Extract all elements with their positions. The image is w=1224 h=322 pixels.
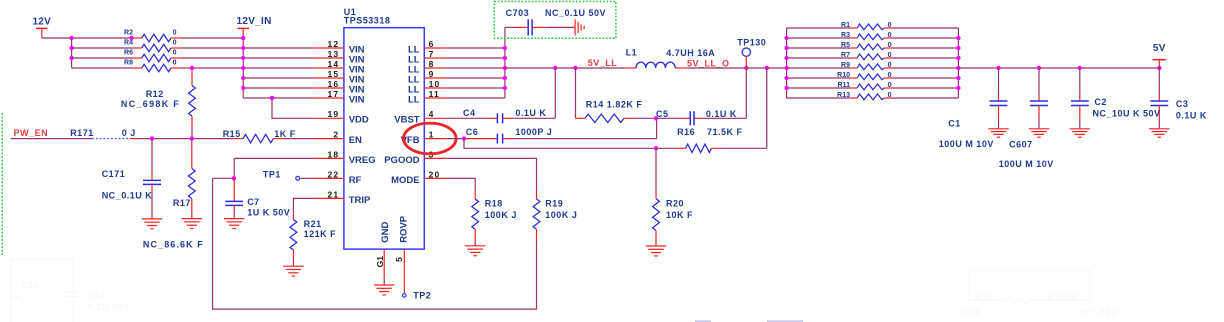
- pin 2 EN: [314, 130, 362, 147]
- svg-text:5V_LL_O: 5V_LL_O: [687, 59, 730, 69]
- ground at R18: [465, 245, 485, 247]
- junction LL bus y78: [503, 76, 507, 80]
- svg-text:2: 2: [333, 130, 339, 140]
- svg-text:PGOOD: PGOOD: [384, 155, 420, 166]
- resistor R5 0 ohm: [787, 42, 959, 50]
- wire LL row y58: [447, 57, 505, 59]
- capacitor C607: [1030, 68, 1048, 128]
- wire MODE net: [447, 178, 475, 189]
- svg-text:10K F: 10K F: [666, 210, 693, 220]
- wire R14 riser: [575, 68, 577, 118]
- pin 20 MODE: [391, 169, 447, 186]
- svg-text:0: 0: [888, 22, 892, 29]
- green dashed box around C703: [494, 2, 616, 39]
- faint ghost circuit bottom-left: [10, 259, 79, 322]
- svg-text:C607: C607: [1009, 140, 1033, 150]
- resistor R8 0 ohm: [124, 60, 181, 72]
- svg-text:NC_0.1U K: NC_0.1U K: [102, 191, 153, 201]
- resistor R7 0 ohm: [787, 52, 959, 60]
- svg-text:R4: R4: [124, 40, 133, 47]
- pin 14 VIN: [314, 59, 365, 76]
- svg-text:0 OHM: 0 OHM: [1048, 292, 1079, 302]
- svg-text:R15: R15: [223, 129, 241, 139]
- svg-text:6: 6: [429, 39, 435, 49]
- capacitor C7 1U K 50V: [225, 178, 290, 218]
- svg-text:GND: GND: [380, 222, 391, 243]
- svg-text:R17: R17: [173, 198, 191, 208]
- wire R171 to EN row: [130, 138, 136, 140]
- capacitor C5 0.1U K: [656, 68, 746, 125]
- faint cut text remnant right: [767, 320, 803, 322]
- svg-text:R14 1.82K F: R14 1.82K F: [586, 99, 643, 109]
- resistor R19 100K J: [533, 190, 577, 241]
- svg-text:14: 14: [327, 59, 339, 69]
- resistor R21 121K F: [290, 216, 336, 266]
- svg-text:R11: R11: [838, 82, 851, 89]
- svg-text:VREG: VREG: [349, 155, 376, 166]
- testpoint TP1: [263, 169, 300, 180]
- junction bank left bus y38: [784, 36, 788, 40]
- resistor R4 0 ohm: [124, 40, 181, 52]
- pin 11 LL: [408, 89, 447, 106]
- junction R16 riser: [765, 66, 769, 70]
- ground at R21: [283, 265, 303, 267]
- svg-text:C7: C7: [247, 197, 260, 207]
- svg-text:MODE: MODE: [391, 175, 420, 186]
- testpoint TP130: [737, 37, 766, 68]
- svg-text:NC_0.1U 50V: NC_0.1U 50V: [545, 8, 606, 18]
- pin 1 VFB: [401, 130, 447, 147]
- junction left bus row R4: [69, 46, 73, 50]
- pin 17 VIN: [314, 89, 365, 106]
- pin 18 VREG: [314, 149, 376, 166]
- resistor R12 NC_698K F: [121, 68, 195, 139]
- wire row R8 left: [72, 67, 134, 69]
- resistor R9 0 ohm: [787, 62, 959, 70]
- resistor R10 0 ohm: [787, 72, 959, 80]
- junction 12V_IN bus r8: [241, 66, 245, 70]
- svg-text:R3: R3: [841, 32, 850, 39]
- junction C1 tap: [996, 66, 1000, 70]
- pin 19 VDD: [314, 109, 369, 126]
- capacitor C4 0.1U K: [447, 108, 556, 124]
- svg-text:0: 0: [173, 50, 177, 57]
- wire 5V_LL_O row: [687, 67, 786, 69]
- junction 12V_IN bus r6: [241, 56, 245, 60]
- svg-text:5V: 5V: [1153, 43, 1166, 54]
- svg-text:EN: EN: [349, 135, 362, 146]
- pin 16 VIN: [314, 79, 365, 96]
- ground at C7: [224, 218, 244, 220]
- svg-text:C1: C1: [948, 119, 961, 129]
- svg-text:C14: C14: [88, 291, 106, 301]
- svg-text:0: 0: [888, 62, 892, 69]
- wire row R2 right: [182, 37, 244, 39]
- svg-text:1U K 50V: 1U K 50V: [247, 208, 290, 218]
- svg-text:17: 17: [327, 89, 339, 99]
- svg-text:16: 16: [327, 79, 339, 89]
- junction LL bus y88: [503, 86, 507, 90]
- pin 8 LL: [408, 59, 447, 76]
- svg-text:12: 12: [327, 39, 339, 49]
- svg-text:0: 0: [173, 30, 177, 37]
- svg-text:NC_698K F: NC_698K F: [121, 99, 180, 109]
- junction R12 top: [190, 66, 194, 70]
- pin 4 VBST: [394, 109, 447, 126]
- junction 12V_IN bus r4: [241, 46, 245, 50]
- capacitor C171 NC_0.1U K: [102, 139, 161, 219]
- svg-text:R22: R22: [975, 292, 993, 302]
- svg-text:R8: R8: [124, 60, 133, 67]
- svg-text:1: 1: [429, 130, 435, 140]
- junction bank right bus y78: [956, 76, 960, 80]
- svg-text:C703: C703: [506, 8, 530, 18]
- svg-text:C3: C3: [1176, 99, 1189, 109]
- svg-text:5: 5: [394, 257, 404, 262]
- svg-text:11: 11: [429, 89, 440, 99]
- svg-text:100U M 10V: 100U M 10V: [939, 139, 994, 149]
- wire row R4 left: [72, 47, 134, 49]
- svg-text:C19: C19: [21, 280, 39, 290]
- junction R14/C5/C6 node: [654, 116, 658, 120]
- svg-text:TP1: TP1: [263, 169, 281, 179]
- svg-text:R2: R2: [124, 30, 133, 37]
- svg-text:RF: RF: [349, 175, 362, 186]
- svg-text:NC_10U K 50V: NC_10U K 50V: [1093, 109, 1161, 119]
- junction at 12V bus x71: [69, 36, 73, 40]
- junction on R2 row near label: [129, 36, 133, 40]
- svg-text:LL: LL: [408, 94, 420, 105]
- svg-text:0.1U K: 0.1U K: [706, 109, 737, 119]
- wire 12V_IN bus: [242, 38, 244, 98]
- resistor R1 0 ohm: [787, 22, 959, 30]
- svg-text:VDD: VDD: [349, 115, 369, 126]
- wire VREG net: [234, 157, 314, 159]
- svg-text:10: 10: [429, 79, 441, 89]
- svg-text:TRIP: TRIP: [349, 195, 371, 206]
- junction C3 tap: [1157, 66, 1161, 70]
- power symbol 12V: [36, 27, 48, 29]
- svg-text:0 J: 0 J: [122, 128, 136, 138]
- svg-text:100U M 10V: 100U M 10V: [999, 159, 1054, 169]
- wire 5V_LL row: [505, 67, 626, 69]
- svg-text:TPS53318: TPS53318: [344, 16, 391, 26]
- testpoint TP2: [403, 290, 432, 300]
- svg-text:0: 0: [888, 52, 892, 59]
- svg-text:0: 0: [888, 92, 892, 99]
- pin 13 VIN: [314, 49, 365, 66]
- resistor R15 1K F: [223, 129, 314, 143]
- svg-text:0.1U K: 0.1U K: [515, 108, 546, 118]
- wire output bank left bus: [786, 28, 788, 98]
- wire LL row y98: [447, 97, 505, 99]
- junction R14 riser: [573, 66, 577, 70]
- svg-text:VIN: VIN: [349, 94, 365, 105]
- svg-text:R6: R6: [124, 50, 133, 57]
- svg-text:0.1U K: 0.1U K: [1176, 110, 1207, 120]
- junction VREG/C7: [232, 176, 236, 180]
- svg-text:1000P J: 1000P J: [515, 127, 552, 137]
- svg-text:R5: R5: [841, 42, 850, 49]
- svg-text:71.5K F: 71.5K F: [707, 127, 743, 137]
- wire PGOOD net: [447, 158, 537, 190]
- svg-text:0: 0: [888, 82, 892, 89]
- wire to pin 17: [243, 97, 314, 99]
- junction VDD tap: [270, 96, 274, 100]
- capacitor C6 1000P J: [447, 118, 657, 143]
- ground at C3: [1149, 128, 1169, 130]
- svg-text:20: 20: [429, 169, 441, 179]
- svg-text:19: 19: [327, 109, 339, 119]
- wire LL bus: [504, 27, 506, 98]
- wire LL row y78: [447, 77, 505, 79]
- svg-text:ROVP: ROVP: [399, 215, 410, 243]
- resistor R3 0 ohm: [787, 32, 959, 40]
- resistor R17 NC_86.6K F: [143, 139, 204, 250]
- wire output bank right bus: [957, 28, 959, 98]
- resistor R13 0 ohm: [787, 92, 959, 100]
- junction bank right bus y58: [956, 56, 960, 60]
- wire PW_EN: [11, 138, 92, 140]
- wire VREG bottom loop to R19: [213, 178, 537, 309]
- svg-text:C2: C2: [1094, 97, 1107, 107]
- junction left bus row R6: [69, 56, 73, 60]
- wire 5V output row: [958, 67, 1159, 69]
- svg-text:12V_IN: 12V_IN: [237, 16, 272, 27]
- junction bank left bus y48: [784, 46, 788, 50]
- svg-text:C4: C4: [463, 108, 476, 118]
- pin 10 LL: [408, 79, 447, 96]
- pin 7 LL: [408, 49, 447, 66]
- svg-text:5V_LL: 5V_LL: [588, 58, 618, 68]
- resistor R18 100K J: [472, 190, 517, 246]
- junction TP130: [744, 66, 748, 70]
- junction C607 tap: [1037, 66, 1041, 70]
- wire row R6 to pin 13: [182, 57, 314, 59]
- svg-text:R10: R10: [837, 72, 850, 79]
- junction bank left bus y68: [784, 66, 788, 70]
- resistor R20 10K F: [653, 148, 693, 246]
- svg-text:PW_EN: PW_EN: [14, 128, 49, 138]
- svg-text:7: 7: [429, 49, 435, 59]
- resistor R6 0 ohm: [124, 50, 181, 62]
- svg-text:0: 0: [888, 42, 892, 49]
- svg-text:1K F: 1K F: [274, 129, 296, 139]
- wire TRIP net: [293, 198, 313, 216]
- wire LL row y68: [447, 67, 505, 69]
- svg-text:4: 4: [429, 109, 435, 119]
- svg-text:C171: C171: [102, 169, 126, 179]
- ground at GND pin: [374, 284, 394, 286]
- ground at C2: [1070, 128, 1090, 130]
- pin 3 PGOOD: [384, 149, 447, 166]
- svg-text:G1: G1: [375, 256, 385, 268]
- svg-text:0.1U 50V: 0.1U 50V: [88, 302, 130, 312]
- pin 9 LL: [408, 69, 447, 86]
- wire row R8 to pin 14: [182, 67, 314, 69]
- junction C2 tap: [1078, 66, 1082, 70]
- svg-text:NC_86.6K F: NC_86.6K F: [143, 240, 204, 250]
- op-amp U1 TPS53318 body: [344, 7, 425, 249]
- wire LL row y48: [447, 47, 505, 49]
- svg-text:R7: R7: [841, 52, 850, 59]
- junction C171 tap: [150, 136, 154, 140]
- wire left bus x71 down: [71, 38, 73, 68]
- power symbol 12V_IN: [237, 27, 249, 29]
- junction 12V_IN bus r15: [241, 76, 245, 80]
- junction C4 riser: [553, 66, 557, 70]
- junction 12V_IN bus r2: [241, 36, 245, 40]
- svg-text:0: 0: [888, 32, 892, 39]
- green dashed page-boundary edge (left): [1, 113, 3, 255]
- svg-text:NC_PAD: NC_PAD: [1080, 308, 1119, 318]
- svg-text:15: 15: [327, 69, 339, 79]
- wire 12V to R2 row: [42, 37, 134, 39]
- svg-text:4.7UH 16A: 4.7UH 16A: [666, 48, 715, 58]
- junction bank left bus y78: [784, 76, 788, 80]
- wire to pin 16: [243, 87, 314, 89]
- pin 6 LL: [408, 39, 447, 56]
- svg-text:R20: R20: [666, 198, 684, 208]
- faint cut text remnant left: [695, 320, 711, 322]
- resistor R171 0 J (NC, dashed): [70, 128, 136, 139]
- svg-text:0: 0: [888, 72, 892, 79]
- junction R17 tap: [190, 136, 194, 140]
- junction R16/R20 node: [654, 146, 658, 150]
- junction bank right bus y48: [956, 46, 960, 50]
- svg-text:R16: R16: [677, 127, 695, 137]
- svg-text:0: 0: [173, 60, 177, 67]
- red ellipse highlight around VFB: [404, 123, 457, 154]
- svg-text:18: 18: [327, 149, 339, 159]
- svg-text:R1: R1: [841, 22, 850, 29]
- power symbol 5V: [1153, 59, 1166, 61]
- wire to pin 15: [243, 77, 314, 79]
- capacitor C2: [1071, 68, 1089, 128]
- svg-text:12V: 12V: [32, 17, 51, 28]
- pin 21 TRIP: [314, 189, 371, 206]
- wire C4 riser to 5V_LL: [554, 68, 556, 118]
- svg-text:R13: R13: [837, 92, 850, 99]
- inductor L1 4.7UH 16A: [626, 48, 716, 68]
- faint ghost circuit bottom-right: [969, 271, 1090, 304]
- svg-text:121K F: 121K F: [304, 229, 337, 239]
- pin G1 GND: [375, 222, 391, 285]
- svg-text:L1: L1: [626, 48, 638, 58]
- capacitor C3: [1150, 68, 1168, 128]
- junction VFB feedback tap: [462, 136, 466, 140]
- svg-text:C6: C6: [466, 127, 479, 137]
- resistor R14 1.82K F: [576, 99, 683, 122]
- svg-text:R12: R12: [146, 89, 164, 99]
- resistor R16 71.5K F: [656, 68, 767, 153]
- capacitor C703 NC_0.1U 50V: [505, 8, 606, 35]
- wire LL row y88: [447, 87, 505, 89]
- svg-text:R9: R9: [841, 62, 850, 69]
- svg-text:100K J: 100K J: [485, 210, 517, 220]
- pin 22 RF: [314, 169, 362, 186]
- junction bank right bus y38: [956, 36, 960, 40]
- ground at R17: [182, 218, 202, 220]
- svg-text:13: 13: [327, 49, 339, 59]
- junction LL bus y68: [503, 66, 507, 70]
- svg-text:9: 9: [429, 69, 435, 79]
- junction bank left bus y88: [784, 86, 788, 90]
- pin 12 VIN: [314, 39, 365, 56]
- junction 12V_IN bus r16: [241, 86, 245, 90]
- resistor R11 0 ohm: [787, 82, 959, 90]
- junction LL bus y58: [503, 56, 507, 60]
- ground at C607: [1029, 128, 1049, 130]
- wire VFB feedback row: [464, 139, 656, 149]
- junction bank right bus y68: [956, 66, 960, 70]
- ground (sideways) at C703: [574, 19, 576, 35]
- pin 15 VIN: [314, 69, 365, 86]
- junction LL bus y48: [503, 46, 507, 50]
- ground at C1: [988, 128, 1008, 130]
- junction bank right bus y88: [956, 86, 960, 90]
- svg-text:TP130: TP130: [737, 37, 766, 47]
- svg-text:R18: R18: [485, 198, 503, 208]
- svg-text:R171: R171: [70, 128, 94, 138]
- svg-text:R19: R19: [545, 198, 563, 208]
- svg-text:100K J: 100K J: [545, 210, 577, 220]
- svg-text:TP2: TP2: [413, 290, 431, 300]
- junction bank left bus y58: [784, 56, 788, 60]
- pin 5 ROVP: [394, 215, 410, 293]
- resistor R2 0 ohm: [124, 30, 181, 42]
- wire row R6 left: [72, 57, 134, 59]
- ground at R20: [646, 245, 666, 247]
- wire row R4 to pin 12: [182, 47, 314, 49]
- svg-text:8: 8: [429, 59, 435, 69]
- wire TP1 to RF pin: [300, 177, 313, 179]
- svg-text:C5: C5: [656, 109, 669, 119]
- svg-text:21: 21: [327, 189, 339, 199]
- capacitor C1: [990, 68, 1008, 128]
- ground at C171: [142, 218, 162, 220]
- wire VDD branch: [272, 98, 314, 118]
- svg-text:22: 22: [327, 169, 339, 179]
- svg-text:R23: R23: [962, 308, 980, 318]
- svg-text:R21: R21: [304, 219, 322, 229]
- svg-text:0: 0: [173, 40, 177, 47]
